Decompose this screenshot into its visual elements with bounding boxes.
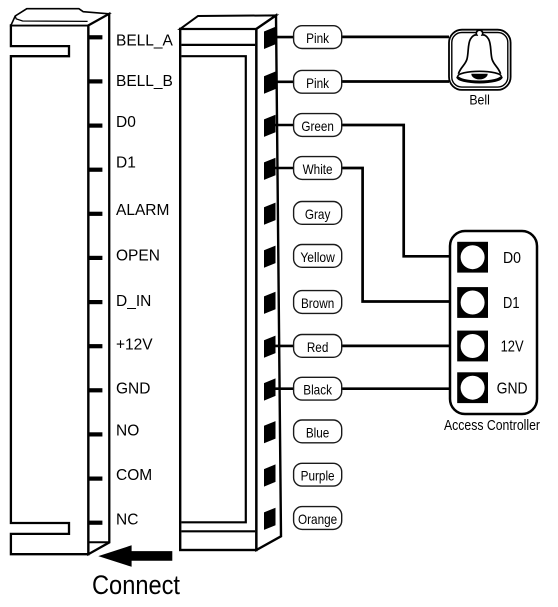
P1 pin 1 (Pink) [264, 27, 276, 49]
device connector block J1 front face [11, 25, 89, 554]
svg-text:Pink: Pink [306, 75, 330, 91]
svg-text:BELL_A: BELL_A [116, 32, 174, 49]
wire label pill Black [294, 377, 342, 400]
terminal tick BELL_B [88, 79, 102, 83]
P1 right side face [256, 15, 281, 550]
terminal tick D_IN [88, 300, 102, 304]
P1 pin 2 (Pink) [264, 72, 276, 94]
terminal tick NC [88, 521, 102, 525]
svg-text:Brown: Brown [301, 295, 334, 311]
svg-text:BELL_B: BELL_B [116, 73, 173, 90]
J1 right side face [88, 14, 109, 554]
P1 pin 7 (Brown) [264, 292, 276, 314]
svg-text:D_IN: D_IN [116, 293, 151, 310]
svg-text:Access Controller: Access Controller [444, 417, 540, 434]
svg-text:OPEN: OPEN [116, 248, 160, 265]
P1 top groove line [181, 44, 255, 46]
wire White pill to controller D1 [342, 168, 450, 302]
svg-text:Yellow: Yellow [300, 249, 335, 265]
wire pin4 to White pill [274, 167, 294, 170]
wire pin2 to Pink pill [274, 81, 294, 84]
P1 pin 11 (Purple) [264, 464, 276, 486]
J1 bottom corner bevel line [88, 541, 109, 543]
wire label pill Pink [294, 26, 342, 49]
bell clapper [471, 74, 487, 80]
wire label pill Red [294, 335, 342, 358]
terminal tick COM [88, 477, 102, 481]
svg-text:12V: 12V [501, 339, 524, 356]
J1 top face flap [15, 9, 87, 22]
wire label pill Blue [294, 420, 342, 443]
svg-text:White: White [303, 161, 333, 177]
P1 pin 9 (Black) [264, 378, 276, 400]
wire Black pill to controller GND [342, 387, 450, 390]
svg-text:Gray: Gray [305, 206, 331, 222]
terminal tick D1 [88, 168, 102, 172]
controller terminal D0 [457, 242, 488, 273]
wire label pill Pink 2 [294, 70, 342, 93]
P1 inner panel [181, 56, 245, 522]
P1 pin 4 (White) [264, 158, 276, 180]
wire label pill White [294, 157, 342, 180]
terminal tick +12V [88, 344, 102, 348]
wire pin1 to Pink pill [274, 36, 294, 39]
svg-text:D1: D1 [503, 295, 520, 312]
terminal tick D0 [88, 124, 102, 128]
P1 bottom groove line [181, 530, 255, 532]
wire Green pill to controller D0 [342, 125, 450, 256]
terminal tick OPEN [88, 256, 102, 260]
svg-text:Bell: Bell [469, 92, 490, 108]
P1 pin 10 (Blue) [264, 421, 276, 443]
wire Pink pill to Bell [342, 36, 449, 39]
wire Red pill to controller 12V [342, 345, 450, 348]
svg-text:COM: COM [116, 467, 152, 484]
svg-text:Green: Green [301, 118, 334, 134]
bell icon outer frame [449, 30, 511, 90]
controller terminal D1 [457, 287, 488, 318]
svg-text:NO: NO [116, 422, 139, 439]
P1 pin 5 (Gray) [264, 203, 276, 225]
wire pin3 to Green pill [274, 124, 294, 127]
controller terminal 12V [457, 331, 488, 362]
svg-text:NC: NC [116, 512, 138, 529]
wire label pill Yellow [294, 245, 342, 268]
wire label pill Orange [294, 507, 342, 530]
svg-text:Orange: Orange [298, 511, 337, 527]
svg-text:Purple: Purple [301, 468, 335, 484]
P1 pin 8 (Red) [264, 336, 276, 358]
svg-text:Black: Black [303, 382, 333, 398]
bell body [458, 30, 500, 74]
wire Pink pill 2 to Bell [342, 80, 449, 83]
P1 pin 12 (Orange) [264, 508, 276, 530]
P1 pin 6 (Yellow) [264, 246, 276, 268]
svg-text:D0: D0 [503, 250, 521, 267]
svg-text:ALARM: ALARM [116, 202, 169, 219]
svg-text:D1: D1 [116, 155, 136, 172]
wire label pill Gray [294, 202, 342, 225]
wire pin9 to Black pill [274, 387, 294, 390]
svg-text:D0: D0 [116, 114, 136, 131]
svg-text:Connect: Connect [92, 570, 180, 600]
terminal tick GND [88, 388, 102, 392]
wire label pill Green [294, 114, 342, 137]
svg-text:GND: GND [116, 380, 150, 397]
P1 top face [180, 15, 276, 29]
svg-text:GND: GND [497, 380, 528, 397]
controller terminal GND [457, 372, 488, 403]
bell rim [458, 71, 502, 81]
bell icon inner frame [452, 33, 508, 88]
P1 pin 3 (Green) [264, 115, 276, 137]
svg-text:Pink: Pink [306, 30, 330, 46]
wire label pill Purple [294, 463, 342, 486]
connect arrow [98, 545, 172, 567]
svg-text:Red: Red [307, 339, 329, 355]
wire label pill Brown [294, 291, 342, 314]
plug connector block P1 front face [180, 29, 256, 550]
access controller box [450, 231, 537, 414]
terminal tick ALARM [88, 212, 102, 216]
J1 top face [11, 9, 109, 26]
bell rim thick bottom [458, 77, 502, 82]
terminal tick NO [88, 432, 102, 436]
svg-text:+12V: +12V [116, 336, 153, 353]
terminal tick BELL_A [88, 35, 102, 39]
wire pin8 to Red pill [274, 345, 294, 348]
svg-text:Blue: Blue [306, 424, 330, 440]
